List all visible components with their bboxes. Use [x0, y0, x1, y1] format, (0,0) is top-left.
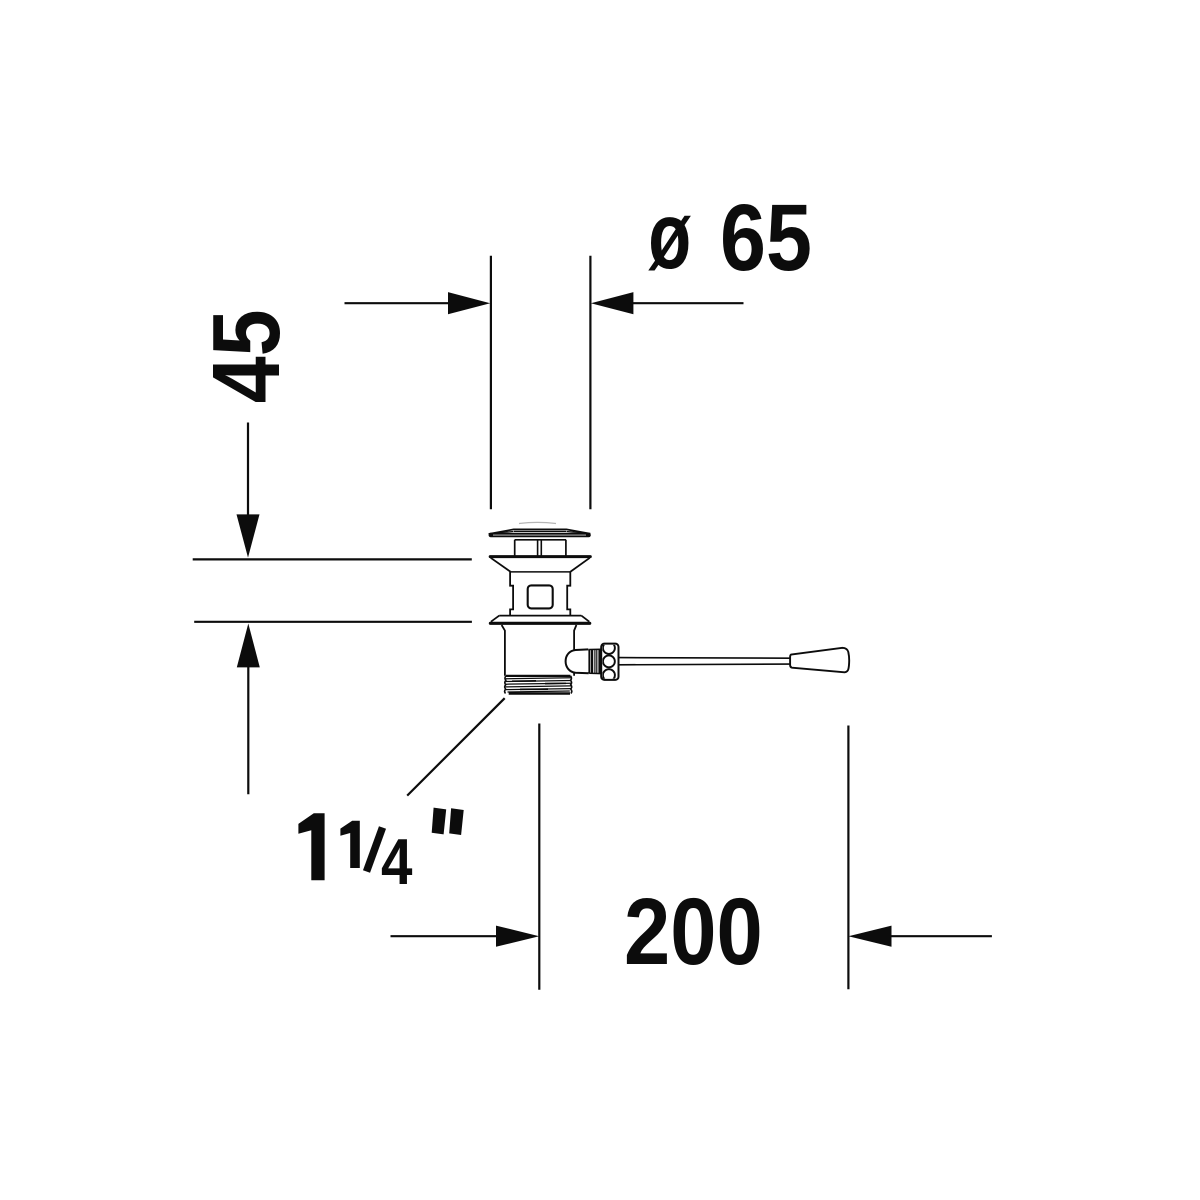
200 extension line left — [538, 724, 540, 990]
lever rod top line — [619, 657, 791, 660]
thread bottom edge — [509, 692, 570, 694]
thread dark dash 2 — [545, 682, 566, 684]
thread right wavy edge — [571, 676, 572, 694]
thread line 4 — [506, 686, 571, 687]
drain plug cap top face — [489, 529, 591, 534]
drain plug cap dome highlight — [519, 522, 556, 523]
upper flange right slope — [570, 558, 590, 572]
basin bottom surface line — [194, 621, 472, 623]
tailpiece left shoulder — [502, 625, 505, 676]
gland mid line 2 — [596, 650, 598, 673]
coupling nut ball bottom — [603, 669, 615, 681]
coupling nut ball middle — [603, 655, 615, 667]
svg-text:ø: ø — [648, 182, 691, 289]
tailpiece right shoulder — [574, 625, 576, 676]
extension line left of ø65 — [490, 256, 492, 509]
lever knob — [790, 648, 849, 673]
cap rim band — [489, 533, 591, 538]
lower flange top edge — [499, 615, 581, 617]
svg-text:4: 4 — [381, 825, 413, 898]
45 dimension shaft lower — [247, 663, 249, 794]
upper flange bottom edge — [511, 571, 571, 573]
gland dark stripe 2 — [598, 649, 601, 673]
coupling nut ball top — [603, 642, 615, 654]
thread dark dash 3 — [520, 688, 548, 690]
valve housing dome — [566, 649, 589, 673]
svg-text:65: 65 — [720, 183, 812, 290]
45 upper arrowhead (down) — [237, 514, 260, 557]
200 extension line right — [847, 726, 849, 990]
gland bottom edge — [589, 672, 601, 674]
cap underside line — [515, 539, 567, 541]
body right contour — [567, 572, 570, 616]
basin top surface line — [193, 558, 472, 560]
gland mid line — [594, 650, 596, 673]
plug stem right line — [540, 540, 542, 555]
gland left edge — [588, 649, 590, 673]
neck right line — [565, 540, 567, 556]
coupling nut body — [601, 644, 618, 680]
body square opening — [528, 585, 553, 608]
lower flange bottom thick edge — [490, 622, 589, 625]
thread line 2 — [505, 681, 571, 682]
gland dark stripe 1 — [591, 650, 594, 673]
thread line 5 — [506, 689, 571, 690]
extension line right of ø65 — [589, 256, 591, 509]
lower flange left slope — [491, 616, 499, 622]
lever rod bottom line — [619, 663, 791, 666]
thread left wavy edge — [505, 676, 506, 694]
cap top face inner edge — [514, 530, 566, 532]
ø65 dimension line right segment — [630, 302, 744, 304]
45 lower arrowhead (up) — [237, 624, 260, 668]
upper flange left slope — [491, 558, 511, 572]
cap inner edge right slope — [567, 531, 590, 533]
45 dimension shaft upper — [247, 423, 249, 519]
200 left arrowhead — [496, 926, 539, 947]
svg-text:45: 45 — [193, 309, 300, 403]
upper flange top thick edge — [490, 555, 590, 558]
thread line 3 — [505, 683, 571, 684]
neck left line — [514, 540, 516, 556]
thread top edge — [506, 675, 570, 677]
thread dark dash 1 — [512, 680, 536, 682]
dimension label "1 1/4 inch" — [298, 808, 463, 898]
200 right arrowhead — [848, 926, 891, 947]
thread line 6 — [508, 691, 570, 692]
lower flange right slope — [581, 616, 589, 622]
ø65 left arrowhead — [448, 292, 490, 314]
plug stem left line — [537, 540, 539, 555]
gland top edge — [589, 648, 601, 650]
200 dimension line right segment — [887, 935, 992, 937]
200 dimension line left segment — [391, 935, 501, 937]
body left contour — [510, 572, 513, 616]
ø65 right arrowhead — [591, 292, 634, 314]
svg-text:200: 200 — [624, 878, 763, 984]
thread line 1 — [506, 678, 571, 679]
ø65 dimension line left segment — [345, 302, 453, 304]
leader line to 1 1/4 inch thread — [407, 698, 505, 795]
cap inner edge left slope — [491, 531, 514, 533]
dimension label "ø 65" — [648, 182, 812, 290]
